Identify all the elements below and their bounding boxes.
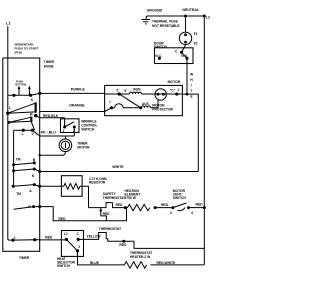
svg-text:5: 5 <box>117 89 119 93</box>
svg-text:NEUTRAL: NEUTRAL <box>182 8 200 12</box>
svg-text:GROUND: GROUND <box>147 9 163 13</box>
svg-text:TIMER: TIMER <box>19 256 30 260</box>
svg-text:HEATER-2 W.: HEATER-2 W. <box>130 255 151 259</box>
svg-text:3: 3 <box>170 211 172 215</box>
svg-text:F2: F2 <box>194 42 198 46</box>
svg-text:RED: RED <box>45 235 53 239</box>
svg-text:L: L <box>22 132 24 136</box>
svg-text:(R-B): (R-B) <box>15 51 22 55</box>
svg-text:RED: RED <box>116 203 124 207</box>
svg-text:2: 2 <box>78 245 80 249</box>
svg-text:SWITCH: SWITCH <box>81 128 95 132</box>
svg-text:M: M <box>30 112 33 116</box>
svg-text:L: L <box>9 106 11 110</box>
svg-text:PURPLE: PURPLE <box>71 87 86 91</box>
svg-text:THERMOSTAT: THERMOSTAT <box>99 227 121 231</box>
svg-text:L1: L1 <box>6 20 11 25</box>
svg-text:RED: RED <box>103 212 111 216</box>
svg-text:RED: RED <box>196 203 204 207</box>
svg-text:NOT RESETABLE: NOT RESETABLE <box>152 24 180 28</box>
svg-text:PK - BLU: PK - BLU <box>41 130 56 134</box>
svg-text:L: L <box>14 235 16 239</box>
svg-text:WHITE: WHITE <box>112 165 124 169</box>
svg-text:THERMAL FUSE: THERMAL FUSE <box>152 20 179 24</box>
svg-text:RED: RED <box>59 217 67 221</box>
svg-text:1: 1 <box>63 129 65 133</box>
svg-text:I: I <box>191 84 192 88</box>
svg-text:MOTOR: MOTOR <box>168 80 181 84</box>
svg-text:TM: TM <box>16 157 21 161</box>
svg-text:L1: L1 <box>64 232 68 236</box>
svg-text:7: 7 <box>109 101 111 105</box>
svg-text:SWITCH: SWITCH <box>57 264 71 268</box>
svg-text:RESISTOR: RESISTOR <box>89 180 106 184</box>
svg-text:1: 1 <box>178 88 180 92</box>
svg-text:4750 W: 4750 W <box>125 196 137 200</box>
svg-text:RED: RED <box>119 243 127 247</box>
svg-text:THERMOSTAT: THERMOSTAT <box>103 196 125 200</box>
svg-text:RED: RED <box>161 203 169 207</box>
svg-text:BLUE: BLUE <box>90 261 100 265</box>
svg-text:4: 4 <box>191 211 193 215</box>
svg-text:L2: L2 <box>206 15 210 19</box>
svg-text:ORANGE: ORANGE <box>69 103 85 107</box>
svg-text:'3': '3' <box>124 89 128 93</box>
svg-text:YELLOW: YELLOW <box>87 234 102 238</box>
svg-text:AUX.: AUX. <box>142 102 150 106</box>
svg-text:T: T <box>190 89 192 93</box>
svg-text:TIMER: TIMER <box>44 60 55 64</box>
svg-text:SWITCH: SWITCH <box>173 196 187 200</box>
svg-text:TM: TM <box>16 192 21 196</box>
svg-text:MOTOR: MOTOR <box>77 145 90 149</box>
svg-text:"C": "C" <box>170 88 176 92</box>
svg-text:RUN: RUN <box>133 87 141 91</box>
svg-text:KNOB: KNOB <box>44 65 54 69</box>
svg-text:F1: F1 <box>194 32 198 36</box>
svg-text:RED-WHITE: RED-WHITE <box>157 261 176 265</box>
svg-text:BUTTON: BUTTON <box>15 83 26 87</box>
